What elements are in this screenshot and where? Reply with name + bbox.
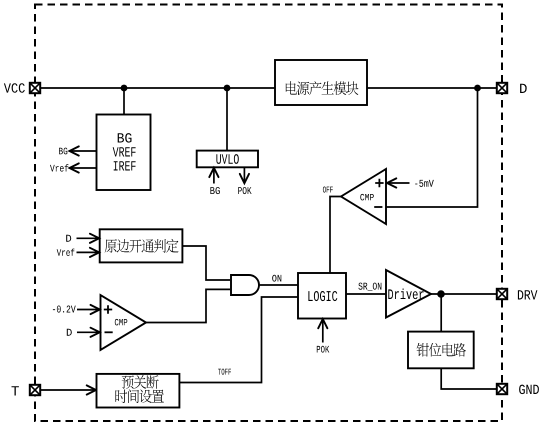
- comparator CMP1 (OFF comparator): [341, 169, 386, 224]
- label POK: [238, 187, 251, 194]
- label D: [520, 84, 527, 93]
- label T: [12, 386, 19, 395]
- label GND: [519, 385, 539, 395]
- wire D input (arrow into U4): [77, 237, 99, 239]
- AND gate G1: [231, 275, 259, 295]
- wire Vref input (arrow into U4): [77, 251, 99, 253]
- block U4 原边开通判定 (primary-side turn-on decision): [100, 229, 183, 262]
- pin D: [497, 83, 507, 93]
- wire VCC bus (VCC pin to D pin): [41, 87, 497, 89]
- minus sign CMP2: [105, 331, 113, 333]
- wire POK input to LOGIC (up arrow): [322, 320, 324, 343]
- label -5mV: [415, 180, 434, 187]
- junction (bus to CMP1 minus input): [474, 85, 481, 92]
- comparator CMP2: [101, 295, 147, 350]
- label -0.2V: [53, 306, 76, 313]
- pin T: [30, 385, 40, 395]
- block U5 LOGIC: [298, 273, 346, 319]
- wire Vref output (left arrow): [71, 167, 97, 169]
- label ON: [272, 275, 281, 282]
- plus sign CMP2: [104, 305, 112, 313]
- label CMP: [115, 319, 128, 326]
- block U3 UVLO: [197, 151, 258, 168]
- wire POK output of UVLO (down arrow): [243, 167, 245, 182]
- wire BG output (left arrow): [71, 150, 97, 152]
- label CMP: [360, 194, 374, 201]
- wire D bus to CMP1 minus input: [386, 88, 478, 207]
- wire U6 output TOFF to LOGIC left: [179, 297, 298, 383]
- label POK: [317, 346, 330, 353]
- block U8 钳位电路 (clamp circuit): [408, 332, 474, 369]
- wire -5mV to CMP1 plus input: [388, 182, 410, 184]
- junction (bus to UVLO): [224, 85, 231, 92]
- label Driver: [388, 289, 423, 300]
- label BG: [59, 148, 67, 155]
- driver buffer U7: [386, 270, 431, 318]
- minus sign CMP1: [374, 206, 382, 208]
- pin VCC: [30, 83, 40, 93]
- wire U4 output to AND gate input A: [182, 246, 230, 280]
- label DRV: [518, 290, 538, 299]
- wire BG input to UVLO (up arrow): [213, 169, 215, 184]
- wire CMP1 output OFF to LOGIC top: [330, 197, 341, 274]
- wire T pin to U6 (arrow): [41, 389, 96, 391]
- label D: [66, 235, 71, 242]
- wire (bus junction down to UVLO): [226, 88, 228, 151]
- wire CMP2 output to AND gate input B: [146, 289, 230, 322]
- pin GND: [497, 384, 507, 394]
- junction (driver output to clamp): [437, 290, 445, 298]
- block U1 电源产生模块 (power generation module): [275, 60, 367, 105]
- wire D input (arrow into CMP2 minus): [77, 331, 99, 333]
- label D: [67, 329, 72, 336]
- wire -0.2V input (arrow into CMP2 plus): [77, 309, 99, 311]
- label SR_ON: [358, 283, 381, 291]
- pin DRV: [497, 289, 507, 299]
- label Vref: [50, 164, 68, 171]
- wire (bus junction down to BG/VREF/IREF block): [123, 88, 125, 115]
- label BG: [210, 187, 219, 194]
- label TOFF: [218, 369, 231, 375]
- wire AND output ON to LOGIC: [259, 284, 298, 286]
- label VCC: [4, 83, 25, 93]
- block U2 BG VREF IREF: [97, 115, 151, 191]
- label Vref: [57, 249, 75, 256]
- wire Driver output to DRV pin: [431, 293, 497, 295]
- wire LOGIC output SR_ON to Driver: [346, 293, 386, 295]
- wire clamp block to GND pin: [441, 368, 496, 389]
- label OFF: [323, 187, 333, 193]
- junction (bus to BG/VREF/IREF): [121, 85, 128, 92]
- block U6 预关断时间设置 (pre turn-off time setting): [97, 374, 180, 408]
- wire (junction down to clamp block): [440, 294, 442, 332]
- plus sign CMP1: [375, 179, 383, 187]
